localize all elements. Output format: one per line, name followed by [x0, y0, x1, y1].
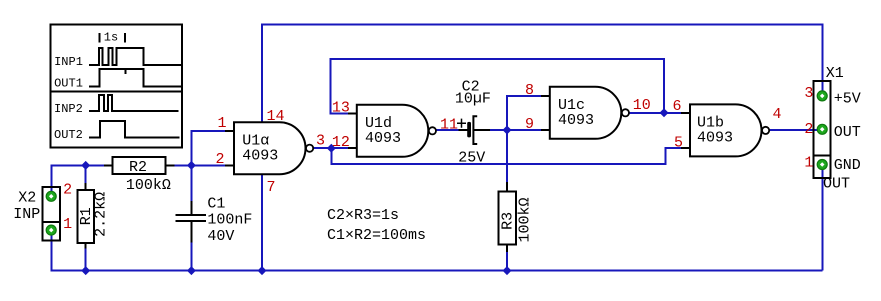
NAND gate U1b 4093: [681, 104, 769, 156]
resistor R3: [499, 182, 534, 252]
wire R1 bottom to rail: [85, 249, 87, 271]
svg-text:100nF: 100nF: [207, 212, 252, 229]
svg-text:100kΩ: 100kΩ: [126, 177, 171, 194]
svg-text:6: 6: [673, 98, 682, 115]
junction at R1 top: [81, 161, 90, 170]
svg-text:14: 14: [267, 108, 285, 125]
pad X1 pin2: [817, 124, 827, 134]
svg-text:X2: X2: [18, 190, 36, 207]
svg-text:+5V: +5V: [834, 91, 861, 108]
wire junction down to R3: [506, 130, 508, 182]
resistor R1: [78, 183, 110, 249]
pad X1 pin1: [817, 160, 827, 170]
svg-text:INP1: INP1: [54, 55, 83, 69]
wire U1a pin7 to rail: [261, 174, 263, 270]
svg-text:4093: 4093: [242, 148, 278, 165]
timing diagram box 2 (INP2/OUT2): [51, 92, 183, 148]
svg-text:100kΩ: 100kΩ: [517, 197, 534, 242]
svg-text:C1: C1: [207, 196, 225, 213]
pad X2 pin2: [46, 191, 56, 201]
svg-text:13: 13: [332, 100, 350, 117]
svg-text:R2: R2: [129, 159, 147, 176]
wire junction up to U1c pin8: [507, 96, 541, 130]
connector X2: [13, 181, 72, 240]
junction at U1c output: [660, 108, 669, 117]
timing diagram box 1 (INP1/OUT1): [51, 24, 183, 147]
waveform INP2: [89, 95, 179, 111]
svg-text:9: 9: [525, 116, 534, 133]
wire INP: X2 pin2 up and right to R2: [51, 165, 104, 196]
NAND gate U1a 4093: [225, 122, 313, 174]
svg-text:INP2: INP2: [54, 102, 83, 116]
svg-text:OUT1: OUT1: [54, 77, 83, 91]
svg-text:1: 1: [63, 216, 72, 233]
wire U1a out down, lower rail, up to U1b pin5: [331, 148, 681, 164]
svg-text:OUT2: OUT2: [54, 128, 83, 142]
OUT1 1s marker tick: [125, 69, 127, 74]
pad X1 pin3: [817, 91, 827, 101]
svg-text:4093: 4093: [365, 130, 401, 147]
svg-text:2: 2: [804, 121, 813, 138]
svg-text:2: 2: [63, 181, 72, 198]
wire R1 top: [85, 165, 87, 183]
svg-text:2: 2: [216, 151, 225, 168]
junction GND at C1: [187, 266, 196, 275]
wire U1c out to U1b pin6: [629, 112, 681, 114]
svg-text:11: 11: [440, 116, 458, 133]
wire R3 bottom to rail: [506, 252, 508, 271]
junction GND at R1: [81, 266, 90, 275]
svg-text:7: 7: [267, 179, 276, 196]
capacitor C1: [176, 196, 253, 245]
wire X1 pin1 down to rail: [821, 165, 823, 271]
svg-text:4093: 4093: [558, 112, 594, 129]
NAND gate U1c 4093: [541, 87, 629, 139]
svg-text:R3: R3: [499, 212, 516, 230]
svg-text:4: 4: [773, 106, 782, 123]
svg-text:12: 12: [332, 134, 350, 151]
svg-text:10: 10: [633, 97, 651, 114]
wire C1 bottom to rail: [190, 242, 192, 270]
capacitor C2: [455, 79, 491, 167]
svg-text:8: 8: [525, 82, 534, 99]
svg-text:OUT: OUT: [834, 124, 861, 141]
svg-text:OUT: OUT: [823, 176, 850, 193]
svg-text:10µF: 10µF: [455, 91, 491, 108]
svg-text:25V: 25V: [458, 150, 485, 167]
wire U1d out to C2: [436, 129, 458, 131]
junction at U1a output: [327, 144, 336, 153]
wire junction up to U1a pin1: [191, 131, 225, 165]
resistor R2: [104, 157, 175, 194]
junction GND at R3: [503, 266, 512, 275]
wire U1b out to X1 pin2: [769, 129, 822, 131]
NAND gate U1d 4093: [348, 105, 436, 157]
wire C2 right to junction and U1c pin9: [490, 129, 541, 131]
wire feedback: junction up, top, down to U1d pin13: [331, 59, 665, 113]
wire R2 right to U1a pin2: [175, 164, 226, 166]
wire +5V: U1a pin14 up, top rail, down to X1 pin 3: [262, 25, 822, 123]
svg-text:INP: INP: [13, 206, 40, 223]
connector X1: [804, 65, 860, 193]
1s scale ticks: [99, 33, 125, 43]
svg-text:1: 1: [218, 115, 227, 132]
svg-text:C1×R2=100ms: C1×R2=100ms: [327, 227, 426, 244]
svg-text:4093: 4093: [697, 130, 733, 147]
wire GND rail: [51, 230, 822, 271]
svg-text:C2×R3=1s: C2×R3=1s: [327, 207, 399, 224]
pad X2 pin1: [46, 225, 56, 235]
svg-text:1s: 1s: [104, 30, 118, 44]
svg-text:5: 5: [674, 135, 683, 152]
waveform OUT1: [89, 69, 181, 86]
svg-text:3: 3: [804, 85, 813, 102]
waveform OUT2: [89, 121, 180, 138]
svg-text:X1: X1: [826, 65, 844, 82]
waveform INP1: [89, 48, 181, 65]
svg-text:3: 3: [316, 132, 325, 149]
svg-text:40V: 40V: [207, 228, 234, 245]
wire U1a out to U1d pin12: [313, 147, 348, 149]
wire junction down to C1: [190, 165, 192, 201]
svg-text:1: 1: [804, 154, 813, 171]
svg-text:GND: GND: [834, 157, 861, 174]
junction at C2 right: [503, 126, 512, 135]
svg-text:2.2kΩ: 2.2kΩ: [92, 192, 109, 237]
junction at R2 right / C1: [187, 161, 196, 170]
junction GND at U1a pin7: [258, 266, 267, 275]
